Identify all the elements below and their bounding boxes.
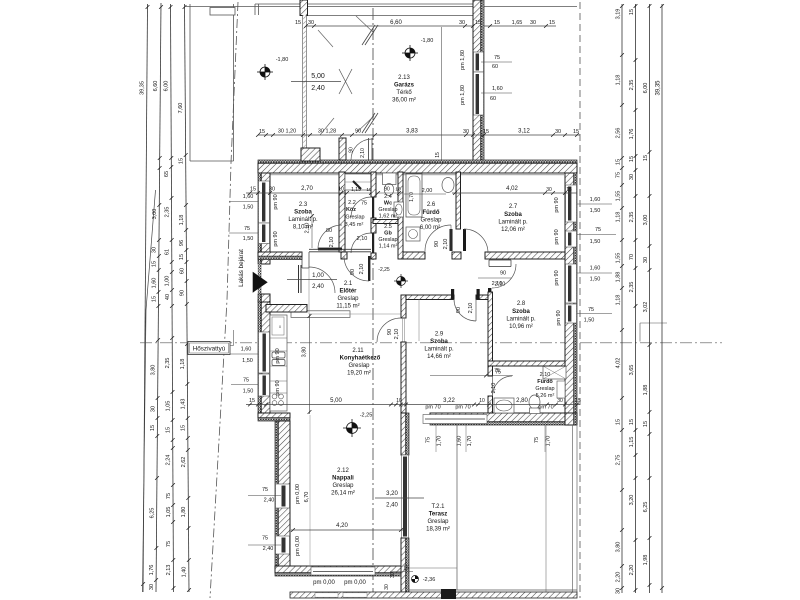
svg-text:1,60: 1,60	[151, 278, 157, 289]
svg-text:pm 90: pm 90	[273, 231, 279, 246]
top fence line	[184, 6, 577, 8]
nappali window 1	[276, 484, 290, 508]
svg-text:Köz: Köz	[346, 207, 356, 213]
terrace pillar mark	[409, 567, 457, 569]
svg-text:90: 90	[355, 129, 361, 135]
svg-text:30: 30	[463, 129, 469, 135]
room 2.9 door arc	[454, 299, 476, 321]
svg-text:90: 90	[434, 241, 440, 247]
furdo 2.10 left wall upper	[488, 366, 493, 376]
svg-text:60: 60	[492, 64, 498, 70]
room 2.7 dim	[452, 192, 577, 194]
svg-text:39,35: 39,35	[140, 81, 146, 95]
svg-text:75: 75	[262, 536, 268, 542]
top wall inner face line	[270, 174, 564, 176]
partition wc/gb	[373, 220, 403, 224]
svg-text:2,10: 2,10	[357, 236, 368, 242]
svg-text:pm 0,00: pm 0,00	[344, 580, 366, 586]
survey marker konyha	[343, 419, 361, 437]
svg-text:30: 30	[152, 247, 158, 253]
svg-text:1,55: 1,55	[616, 253, 622, 264]
svg-text:15: 15	[249, 398, 255, 404]
svg-text:2,10: 2,10	[491, 383, 497, 394]
bottom wall window gap	[311, 567, 375, 575]
svg-text:11,15 m²: 11,15 m²	[336, 304, 359, 310]
dim 2,10 in szoba 2.3	[311, 214, 313, 248]
svg-text:40: 40	[165, 294, 171, 300]
svg-text:1,88: 1,88	[616, 272, 622, 283]
svg-text:2,10: 2,10	[360, 148, 366, 158]
svg-text:30: 30	[557, 398, 563, 404]
svg-text:10: 10	[395, 187, 401, 193]
svg-text:30: 30	[150, 406, 156, 412]
svg-text:4,20: 4,20	[336, 523, 348, 529]
svg-text:6,60: 6,60	[390, 20, 402, 26]
svg-text:15: 15	[629, 419, 635, 425]
svg-text:3,65: 3,65	[629, 365, 635, 376]
svg-text:1,60: 1,60	[457, 436, 463, 447]
svg-text:75: 75	[534, 437, 540, 443]
svg-text:5,26 m²: 5,26 m²	[536, 393, 555, 399]
right wall window c	[566, 264, 577, 303]
svg-text:Greslap: Greslap	[378, 207, 397, 213]
svg-text:2.7: 2.7	[509, 204, 518, 210]
wall jog	[258, 413, 290, 418]
wall 2.8/2.10	[488, 361, 565, 366]
svg-text:2.2: 2.2	[348, 200, 356, 206]
svg-text:1,98: 1,98	[643, 555, 649, 566]
site boundary edge segment	[143, 190, 156, 592]
fence post lines	[254, 4, 256, 15]
svg-text:75: 75	[361, 201, 367, 207]
furdo 2.6 door arc	[425, 225, 451, 251]
door jambs furdo/2.7	[450, 229, 453, 251]
svg-text:4,02: 4,02	[506, 186, 518, 192]
svg-text:1,70: 1,70	[437, 436, 443, 447]
nappali terasz wall lower	[401, 538, 406, 592]
svg-text:3,22: 3,22	[443, 398, 455, 404]
svg-text:Terasz: Terasz	[429, 512, 448, 518]
svg-text:75: 75	[166, 541, 172, 547]
kitchen stove	[272, 394, 277, 399]
svg-text:Szoba: Szoba	[294, 210, 312, 216]
fence pier hatched	[300, 0, 308, 16]
right wall window b	[566, 231, 577, 247]
szoba 2.3 bottom wall	[258, 252, 302, 256]
svg-text:75: 75	[262, 487, 268, 493]
svg-text:15: 15	[259, 129, 265, 135]
svg-text:3,12: 3,12	[518, 129, 530, 135]
svg-text:1,14 m²: 1,14 m²	[379, 244, 398, 250]
svg-text:2,56: 2,56	[616, 128, 622, 139]
gb door arc	[351, 233, 371, 253]
svg-text:65: 65	[164, 171, 170, 177]
svg-text:Térkő: Térkő	[396, 90, 412, 96]
left site dimension line 2	[156, 3, 161, 592]
svg-text:1,00: 1,00	[312, 273, 324, 279]
svg-text:-2,36: -2,36	[423, 577, 436, 583]
kitchen window 75	[259, 374, 270, 396]
svg-text:1,60: 1,60	[590, 197, 601, 203]
right wall window a	[566, 185, 577, 222]
svg-text:10: 10	[396, 398, 402, 404]
svg-text:30: 30	[459, 20, 465, 26]
svg-text:Laminált p.: Laminált p.	[288, 217, 318, 223]
right dimension line 3	[649, 4, 651, 593]
svg-text:2.10: 2.10	[540, 372, 551, 378]
svg-text:15: 15	[549, 20, 555, 26]
svg-text:90: 90	[180, 290, 186, 296]
svg-text:2,24: 2,24	[166, 455, 172, 466]
svg-text:Laminált p.: Laminált p.	[424, 347, 454, 353]
svg-text:15: 15	[179, 254, 185, 260]
door jambs 2.9	[477, 289, 480, 299]
svg-text:15: 15	[295, 20, 301, 26]
svg-text:36,00 m²: 36,00 m²	[392, 98, 416, 104]
wall 2.9/2.8	[488, 292, 493, 361]
svg-text:T.2.1: T.2.1	[431, 504, 445, 510]
svg-text:1,60: 1,60	[492, 86, 503, 92]
svg-text:90: 90	[387, 329, 393, 335]
wc door arc	[351, 197, 371, 217]
passage door arc	[351, 139, 372, 160]
svg-text:2,10: 2,10	[359, 264, 365, 275]
garage wall foot block	[301, 148, 320, 161]
svg-text:1,76: 1,76	[629, 129, 635, 140]
left wall window 75	[259, 223, 270, 244]
svg-text:1,70: 1,70	[409, 192, 415, 202]
svg-text:2,10: 2,10	[329, 237, 335, 248]
svg-text:15: 15	[151, 296, 157, 302]
svg-text:1,43: 1,43	[180, 399, 186, 410]
svg-text:Garázs: Garázs	[394, 83, 415, 89]
room 2.9 left wall lower	[401, 342, 406, 413]
svg-text:60: 60	[179, 268, 185, 274]
furdo 2.10 door arc	[493, 376, 513, 396]
kitchen sink	[272, 352, 285, 358]
svg-text:1,62 m²: 1,62 m²	[379, 214, 398, 220]
entrance door slab	[298, 265, 300, 293]
svg-text:75: 75	[166, 493, 172, 499]
right dimension line 1	[621, 4, 623, 593]
dim line room 2.3	[246, 192, 346, 194]
wall below entrance	[258, 294, 261, 302]
svg-text:1,88: 1,88	[643, 385, 649, 396]
svg-text:96: 96	[179, 240, 185, 246]
svg-text:1,80: 1,80	[181, 507, 187, 518]
svg-text:75: 75	[494, 368, 500, 374]
terrace door glazing	[402, 455, 409, 538]
svg-text:3,20: 3,20	[386, 491, 398, 497]
room 2.8 door arc	[492, 264, 516, 288]
right boundary dashed line	[579, 2, 581, 598]
svg-text:3,02: 3,02	[643, 302, 649, 313]
svg-text:2,20: 2,20	[616, 572, 622, 583]
eloter thin wall lines	[309, 248, 371, 250]
paving band gaps	[315, 593, 338, 597]
passage wall left	[339, 138, 346, 160]
svg-text:pm 90: pm 90	[273, 194, 279, 209]
svg-text:pm 1,80: pm 1,80	[460, 85, 466, 105]
entrance door arc	[309, 267, 335, 293]
terrace right edge line	[456, 425, 458, 590]
nappali terasz wall upper	[401, 413, 406, 455]
svg-text:2,40: 2,40	[263, 546, 274, 552]
horizontal centre axis dash-dot	[140, 342, 722, 344]
svg-text:30: 30	[629, 174, 635, 180]
svg-text:90: 90	[456, 307, 462, 313]
svg-text:6,00: 6,00	[643, 83, 649, 94]
svg-text:90: 90	[500, 271, 506, 277]
svg-text:1,15: 1,15	[351, 187, 361, 193]
driveway edge line	[441, 27, 443, 160]
svg-text:70: 70	[629, 254, 635, 260]
svg-text:6,25: 6,25	[643, 502, 649, 513]
svg-text:3,80: 3,80	[302, 347, 308, 358]
svg-text:75: 75	[243, 378, 249, 384]
svg-text:pm 90: pm 90	[275, 380, 281, 395]
svg-text:14,66 m²: 14,66 m²	[427, 354, 451, 360]
wc dim	[376, 192, 403, 194]
svg-text:1,18: 1,18	[179, 215, 185, 226]
svg-text:30: 30	[149, 584, 155, 590]
fence box	[210, 8, 235, 16]
section line slash marks	[362, 25, 375, 45]
svg-text:2,20: 2,20	[629, 565, 635, 576]
door 2.3 arc	[318, 225, 342, 249]
svg-text:15: 15	[483, 129, 489, 135]
svg-text:75: 75	[595, 227, 601, 233]
svg-text:2.11: 2.11	[352, 348, 364, 354]
svg-text:Hőszivattyú: Hőszivattyú	[193, 346, 226, 353]
svg-text:Fürdő: Fürdő	[423, 210, 440, 216]
svg-text:2,35: 2,35	[629, 282, 635, 293]
svg-text:pm 90: pm 90	[275, 348, 281, 363]
svg-text:15: 15	[566, 187, 572, 193]
svg-text:pm 70: pm 70	[425, 405, 440, 411]
svg-text:2.6: 2.6	[427, 202, 436, 208]
svg-text:1,76: 1,76	[149, 565, 155, 576]
svg-text:15: 15	[250, 187, 256, 193]
svg-text:5,00: 5,00	[330, 398, 342, 404]
svg-text:Laminált p.: Laminált p.	[498, 220, 528, 226]
svg-text:2,80: 2,80	[516, 398, 528, 404]
svg-text:pm 70: pm 70	[455, 405, 470, 411]
svg-text:2,13: 2,13	[166, 565, 172, 576]
svg-text:2,40: 2,40	[386, 503, 398, 509]
svg-text:30: 30	[390, 572, 396, 578]
svg-text:15: 15	[403, 566, 409, 572]
svg-text:pm 70: pm 70	[538, 405, 553, 411]
bottom paving band	[290, 592, 577, 598]
svg-text:90: 90	[350, 269, 356, 275]
partition 2.3/koz	[339, 172, 345, 252]
svg-text:30 1,20: 30 1,20	[278, 129, 296, 135]
svg-text:pm 90: pm 90	[556, 310, 562, 325]
svg-text:30: 30	[546, 187, 552, 193]
svg-text:15: 15	[179, 158, 185, 164]
svg-text:10: 10	[338, 187, 344, 193]
section line A-A vertical dash-dot	[372, 8, 374, 594]
partition wc-gb/furdo	[398, 172, 403, 259]
bathtub 2.6	[406, 174, 422, 217]
kitchen counter	[270, 315, 287, 411]
svg-text:2.5: 2.5	[384, 224, 392, 230]
niche dim	[345, 192, 373, 194]
furdo 2.10 washbasin	[494, 398, 514, 413]
svg-text:Lakás bejárat: Lakás bejárat	[238, 249, 245, 287]
garage door X mark	[339, 69, 352, 94]
furdo dim	[404, 193, 446, 195]
svg-text:1,50: 1,50	[242, 358, 253, 364]
corridor south wall c	[485, 252, 565, 259]
svg-text:6,25: 6,25	[150, 508, 156, 519]
svg-text:2.9: 2.9	[435, 332, 444, 338]
entrance door recess	[301, 252, 303, 268]
outer wall left (nappali)	[275, 421, 278, 568]
svg-text:30: 30	[530, 20, 536, 26]
bottom wall window	[423, 415, 487, 424]
window spec labels below bottom wall	[435, 425, 437, 452]
wc door leaf	[372, 197, 374, 218]
svg-text:2,35: 2,35	[164, 207, 170, 218]
svg-text:8,10 m²: 8,10 m²	[293, 225, 313, 231]
svg-text:2,35: 2,35	[165, 358, 171, 369]
garage top dimension line	[306, 25, 473, 27]
svg-text:2,10: 2,10	[443, 239, 449, 250]
survey marker eloter	[394, 274, 408, 288]
svg-text:1,18: 1,18	[616, 212, 622, 223]
svg-text:2.13: 2.13	[398, 75, 410, 81]
svg-text:1,50: 1,50	[243, 205, 254, 211]
left site dimension line 3	[171, 4, 174, 592]
svg-text:15: 15	[181, 425, 187, 431]
svg-text:7,60: 7,60	[178, 103, 184, 114]
svg-text:1,18: 1,18	[616, 75, 622, 86]
svg-text:3,19: 3,19	[616, 9, 622, 20]
svg-text:75: 75	[616, 172, 622, 178]
outer wall left (room 2.3)	[258, 173, 261, 264]
svg-text:90: 90	[349, 147, 355, 153]
svg-text:90: 90	[384, 187, 390, 193]
svg-text:2.4: 2.4	[384, 194, 392, 200]
svg-text:1,50: 1,50	[590, 208, 601, 214]
svg-text:2.1: 2.1	[344, 281, 353, 287]
site right edge lines	[572, 425, 574, 592]
fence dimension line right	[484, 25, 556, 27]
svg-text:30: 30	[555, 129, 561, 135]
left site dimension line 4	[185, 4, 190, 592]
terrace paving joint line	[545, 425, 547, 592]
svg-text:2.3: 2.3	[299, 202, 308, 208]
svg-text:-1,80: -1,80	[276, 57, 289, 63]
svg-text:-2,25: -2,25	[378, 267, 390, 273]
kitchen door gap	[401, 317, 406, 319]
svg-text:75: 75	[588, 307, 594, 313]
svg-text:4,02: 4,02	[616, 358, 622, 369]
svg-text:3,80: 3,80	[151, 365, 157, 376]
svg-text:2,40: 2,40	[311, 85, 325, 92]
garage right wall window 2	[474, 72, 484, 115]
svg-text:pm 90: pm 90	[554, 229, 560, 244]
outer wall right	[565, 173, 574, 413]
svg-text:3,45 m²: 3,45 m²	[345, 222, 364, 228]
svg-text:61: 61	[165, 249, 171, 255]
svg-text:Wc: Wc	[384, 201, 392, 207]
svg-text:Greslap: Greslap	[337, 296, 359, 302]
room 2.9 top wall a	[406, 295, 454, 300]
garage door swing strokes	[318, 30, 333, 47]
svg-text:26,14 m²: 26,14 m²	[331, 491, 355, 497]
svg-text:15: 15	[629, 9, 635, 15]
dimension line below garage	[258, 134, 580, 136]
svg-text:Greslap: Greslap	[427, 519, 449, 525]
koz niche	[345, 174, 373, 190]
right dimension line 4	[661, 4, 663, 593]
svg-text:Greslap: Greslap	[420, 218, 442, 224]
dim line above bottom wall	[246, 404, 580, 406]
svg-text:pm 0,00: pm 0,00	[295, 536, 301, 556]
svg-text:15: 15	[494, 20, 500, 26]
garage right wall window 1	[474, 52, 484, 72]
svg-text:2,75: 2,75	[616, 455, 622, 466]
svg-text:3,20: 3,20	[629, 495, 635, 506]
svg-text:15: 15	[573, 129, 579, 135]
svg-text:Greslap: Greslap	[348, 363, 370, 369]
svg-text:2,35: 2,35	[629, 212, 635, 223]
svg-text:6,00: 6,00	[164, 81, 170, 92]
svg-text:pm 0,00: pm 0,00	[313, 580, 335, 586]
outer wall left (kitchen)	[258, 300, 261, 413]
svg-text:2.12: 2.12	[337, 468, 349, 474]
svg-text:10,96 m²: 10,96 m²	[509, 324, 533, 330]
room 2.9 top wall b	[476, 295, 488, 300]
survey marker 2	[402, 45, 418, 61]
svg-text:30: 30	[384, 584, 390, 590]
svg-text:19,20 m²: 19,20 m²	[347, 371, 371, 377]
svg-text:Greslap: Greslap	[332, 483, 354, 489]
svg-text:1,55: 1,55	[616, 191, 622, 202]
svg-text:6,70: 6,70	[304, 492, 310, 503]
svg-text:-1,80: -1,80	[421, 38, 434, 44]
svg-text:1,40: 1,40	[182, 567, 188, 578]
svg-text:80: 80	[326, 228, 332, 234]
partition koz/wc upper	[371, 172, 376, 197]
svg-text:1,50: 1,50	[243, 236, 254, 242]
corridor south wall a	[403, 252, 425, 259]
svg-text:Fürdő: Fürdő	[537, 379, 553, 385]
gb washbasin	[394, 202, 404, 217]
svg-text:Greslap: Greslap	[535, 386, 554, 392]
svg-text:2,62: 2,62	[181, 457, 187, 468]
svg-text:2,10: 2,10	[468, 303, 474, 314]
terrace step black	[441, 589, 456, 599]
eloter konyha wall	[266, 305, 307, 313]
svg-text:Gb: Gb	[384, 231, 392, 237]
svg-text:Konyhaétkező: Konyhaétkező	[340, 356, 381, 362]
left site dimension line 1	[143, 4, 148, 592]
svg-text:1,05: 1,05	[165, 401, 171, 412]
svg-text:1,50: 1,50	[584, 318, 595, 324]
svg-text:1,60: 1,60	[241, 347, 252, 353]
property boundary dash-dot line	[210, 2, 238, 598]
svg-text:10: 10	[479, 398, 485, 404]
svg-text:2.8: 2.8	[517, 301, 526, 307]
svg-text:Szoba: Szoba	[430, 339, 448, 345]
svg-text:Greslap: Greslap	[345, 215, 364, 221]
svg-text:Nappali: Nappali	[332, 476, 354, 482]
svg-text:2,10: 2,10	[495, 282, 506, 288]
